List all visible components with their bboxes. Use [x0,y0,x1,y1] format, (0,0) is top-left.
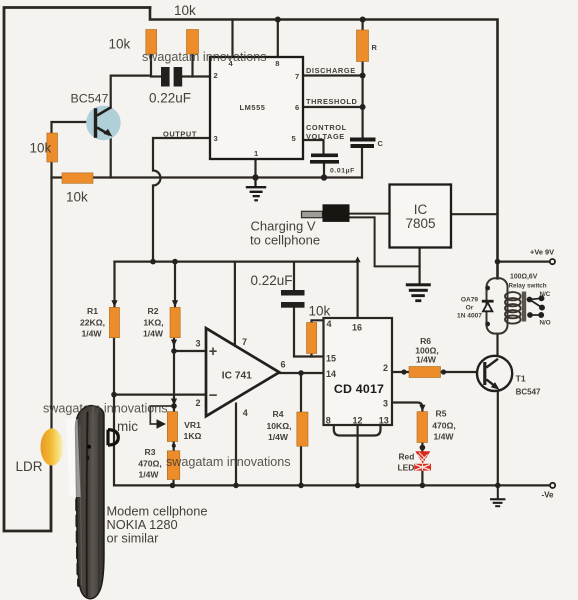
node bus 4017 [355,483,361,489]
component value labels [80,306,541,480]
IC U3 CD4017 box [324,318,393,425]
wire op-amp pin3 [174,350,206,352]
svg-text:0.01µF: 0.01µF [330,167,355,174]
svg-text:14: 14 [326,369,336,379]
svg-text:CD 4017: CD 4017 [334,382,384,396]
node R6 left [401,369,406,374]
op-amp IC741 triangle U2 [206,328,279,416]
svg-text:T1: T1 [516,373,526,383]
node relay bottom [485,322,490,327]
node 555 pin1 gnd [252,174,258,180]
svg-text:Charging V: Charging V [251,219,316,234]
svg-text:7: 7 [242,337,247,347]
svg-text:2: 2 [383,363,388,373]
small arrows on wires [111,300,117,307]
relay coil [505,292,521,324]
wire T1 collector to relay [496,334,498,356]
wire R3 bottom to bus [172,480,174,486]
op-amp labels [196,337,286,418]
charging plug [302,211,323,217]
terminal +Ve 9V (open circle) [550,259,555,264]
svg-text:1/4W: 1/4W [268,432,289,442]
svg-text:4: 4 [243,408,248,418]
svg-text:1/4W: 1/4W [138,470,159,480]
wire cap 0.22uF#2 top [293,262,295,290]
LDR body [41,428,64,465]
svg-text:3: 3 [383,398,388,408]
relay capsule outline [487,278,508,333]
wire 555 pin4 supply [231,20,233,58]
svg-text:to cellphone: to cellphone [250,233,320,248]
svg-text:1KΩ: 1KΩ [184,431,202,441]
wire Q1 base to 10k [52,122,95,133]
wire 10k#2 bottom to pin2 node [191,54,193,77]
node relay top [485,286,490,291]
wire outer LDR loop (left frame) [4,8,150,532]
wire op-amp pin7 supply [234,262,236,346]
wire 555 pin5 to 0.01uF [303,140,324,154]
resistor 10k#3 (4017 pin4-15) [307,323,317,354]
resistor 10k (to 555 pin2, R#2) [187,30,199,55]
wire R4 bottom [300,446,302,485]
wire 0.01uF bottom [323,164,325,178]
svg-text:VOLTAGE: VOLTAGE [306,132,345,141]
wire cap 0.22uF#2 bottom to pin15 [294,308,324,357]
svg-text:DISCHARGE: DISCHARGE [306,66,356,75]
white highlight streak on phone [66,419,81,497]
svg-text:100Ω,6V: 100Ω,6V [510,274,538,281]
svg-text:Red: Red [399,452,415,462]
relay contacts N/C N/O [528,296,545,317]
node VR1 top [171,403,177,409]
svg-text:10k: 10k [174,3,196,18]
node bus R4 [298,483,304,489]
svg-text:1KΩ,: 1KΩ, [143,317,163,327]
watermark swagatam innovations (top) [43,50,291,469]
node R5/LED [420,445,426,451]
svg-text:2: 2 [196,398,201,408]
svg-text:−: − [209,387,218,404]
node discharge [360,73,366,79]
svg-text:IC: IC [414,202,428,217]
svg-text:22KΩ,: 22KΩ, [80,317,105,327]
node top rail R [360,17,366,23]
svg-text:0.22uF: 0.22uF [251,273,293,288]
svg-text:LDR: LDR [16,459,43,474]
wire bottom -Ve bus [115,484,551,486]
node bus emitter gnd [495,483,501,489]
svg-text:R2: R2 [148,306,159,316]
wire +Ve 9V terminal [498,261,550,263]
IC U4 7805 box [390,185,452,248]
svg-text:LED: LED [398,462,415,472]
node +Ve junction [495,259,501,265]
wire plug to 7805 [350,213,390,215]
capacitor C (555 pin6) [350,138,376,142]
svg-text:16: 16 [352,323,362,333]
wire R5 to LED [421,443,423,452]
node R6 right [441,369,446,374]
capacitor 0.22uF (555 input) [161,67,170,87]
relay core bar [522,292,526,322]
svg-text:Relay switch: Relay switch [509,283,547,290]
svg-text:N/C: N/C [540,291,551,298]
wire 555 pin8 supply [277,20,279,58]
resistor 10k (Q1 base pull) [47,133,58,162]
node top rail pin8 [275,17,281,23]
svg-text:LM555: LM555 [239,103,265,112]
svg-text:Or: Or [466,305,474,312]
terminal -Ve (open circle) [550,483,555,488]
wire CD4017 pin3 to R5 [392,403,422,412]
resistor 10k (top left series, R#1) [146,30,157,55]
LED red (triangle + bar) [414,451,431,470]
wire 10k#3 to pin4 [312,320,324,322]
svg-text:R: R [372,43,378,52]
wire 555 ground row [52,176,363,178]
svg-text:swagatam innovations: swagatam innovations [43,402,168,416]
mic symbol [108,430,118,446]
VR1 wiper arm [150,406,174,424]
wire R bottom to cap C [362,76,364,138]
svg-text:1/4W: 1/4W [433,431,454,441]
resistor 10k (horizontal, emitter row) [62,173,93,183]
svg-text:12: 12 [353,416,363,426]
svg-text:10k: 10k [30,141,52,156]
svg-text:7805: 7805 [405,216,435,231]
wire LED to bus [421,471,423,486]
node R2 / pin3 [171,348,177,354]
label relay [509,274,551,327]
svg-text:R3: R3 [145,447,156,457]
svg-text:BC547: BC547 [516,387,541,396]
capacitor 0.22uF #2 (4017 pin15) [281,290,305,296]
wire 10k#3 bottom [310,354,312,357]
svg-text:R6: R6 [420,336,431,346]
resistor R5 470 [417,412,428,443]
node bus pin4 741 [233,483,239,489]
svg-text:N/O: N/O [540,320,551,327]
wire 555 pin1 [254,159,256,178]
svg-text:8: 8 [275,59,279,68]
svg-text:8: 8 [326,416,331,426]
diode OA79/1N4007 [482,300,494,312]
svg-text:R4: R4 [273,409,284,419]
svg-text:or similar: or similar [107,531,160,546]
wire T1 emitter to bus [497,391,499,486]
svg-text:1/4W: 1/4W [416,354,437,364]
transistor Q1 BC547 circle [86,106,121,141]
svg-text:R5: R5 [436,408,447,418]
svg-text:+: + [209,344,217,360]
wire 7805 input to +V line [451,213,498,215]
IC U1 LM555 box [210,57,303,159]
wire supply bus to CD4017 pin16 [115,262,358,318]
potentiometer VR1 body [167,412,177,442]
svg-text:470Ω,: 470Ω, [138,459,162,469]
svg-text:0.22uF: 0.22uF [149,91,191,106]
wire R2 bottom to VR1 [173,338,175,412]
wire junction to cap 0.22uF left [151,75,161,77]
svg-text:C: C [378,139,384,148]
cellphone body [75,498,81,587]
svg-text:3: 3 [214,134,218,143]
node bus LED [420,483,426,489]
svg-text:BC547: BC547 [71,92,109,106]
ground at T1 emitter / -Ve [490,485,505,507]
CD4017 labels [326,319,389,426]
svg-text:1N 4007: 1N 4007 [457,313,482,320]
svg-text:IC 741: IC 741 [222,370,252,381]
svg-text:4: 4 [327,319,332,329]
wire cap C bottom [361,148,363,178]
svg-text:1/4W: 1/4W [143,328,164,338]
node threshold [360,104,366,110]
svg-text:-Ve: -Ve [542,491,555,500]
wire Q1 emitter down [110,136,112,178]
node 0.01uF gnd [321,174,327,180]
wire R1 top [113,262,115,308]
node bus R3 [170,483,176,489]
svg-text:+Ve 9V: +Ve 9V [530,248,554,257]
wire 555 output with hop [153,138,210,262]
wire op-amp output to CD4017 pin14 [279,372,323,374]
node R2 top [172,259,178,265]
svg-text:15: 15 [326,353,336,363]
node R1 / pin2 mic [111,392,117,398]
wire plug negative to ground [350,217,420,266]
ground below 7805 [406,283,431,302]
label OA79 1N4007 [457,297,482,320]
svg-text:swagatam innovations: swagatam innovations [142,50,267,64]
wire 555 pin6 threshold [303,106,363,108]
svg-text:10k: 10k [66,190,88,205]
resistor R4 10K [297,412,308,446]
svg-text:OUTPUT: OUTPUT [163,129,197,138]
wire CD4017 pin2 to R6 [392,371,409,373]
wire R1 bottom through mic to bottom bus [113,338,115,486]
svg-text:OA79: OA79 [461,297,479,304]
wire 7805 gnd pin [419,248,421,284]
svg-text:6: 6 [281,360,286,370]
resistor R2 1K [170,307,180,337]
wire 555 pin7 discharge [303,74,363,76]
resistor R (555 supply to pin7) [357,30,369,62]
IC 555 pin numbers [214,59,300,158]
node 555 output to bus [150,259,156,265]
svg-text:R1: R1 [87,306,98,316]
resistor R1 22K [109,307,119,337]
svg-text:10k: 10k [309,304,331,319]
transistor T1 BC547 [477,356,512,391]
ground below 555 pin1 [246,178,266,202]
wire R4 top [300,373,302,412]
IC 555 internal labels [163,43,384,175]
node R4 top [298,370,304,376]
svg-text:10KΩ,: 10KΩ, [266,421,291,431]
wire resistor R top/bottom [362,20,364,76]
wire R6 to T1 base [441,371,478,373]
wire op-amp pin2 from mic node [114,394,206,396]
svg-text:2: 2 [214,71,218,80]
wire CD4017 pins 8,12,13 bracket [334,425,381,485]
svg-text:1/4W: 1/4W [81,328,102,338]
svg-text:10k: 10k [109,37,131,52]
svg-text:6: 6 [295,103,299,112]
wire op-amp pin4 to bus [235,404,237,486]
svg-text:CONTROL: CONTROL [306,123,347,132]
wire top +V rail [150,8,498,279]
wire VR1 bottom to R3 [173,442,175,451]
wire 10k top rail to Q1 collector [111,54,151,107]
svg-text:mic: mic [117,419,138,434]
svg-text:VR1: VR1 [184,420,201,430]
svg-text:THRESHOLD: THRESHOLD [306,97,357,106]
wire R2 top [174,262,176,308]
svg-text:3: 3 [196,338,201,348]
svg-text:13: 13 [379,416,389,426]
svg-text:7: 7 [295,72,299,81]
svg-text:swagatam innovations: swagatam innovations [166,455,291,469]
capacitor 0.01uF (555 pin5) [311,154,338,158]
resistor R3 470 [167,451,180,480]
resistor R6 100 (horizontal) [409,367,441,378]
wire 10k vert to LDR [50,162,52,429]
wire cap 0.22uF right to 555 pin2 [182,75,210,77]
svg-text:470Ω,: 470Ω, [432,420,456,430]
